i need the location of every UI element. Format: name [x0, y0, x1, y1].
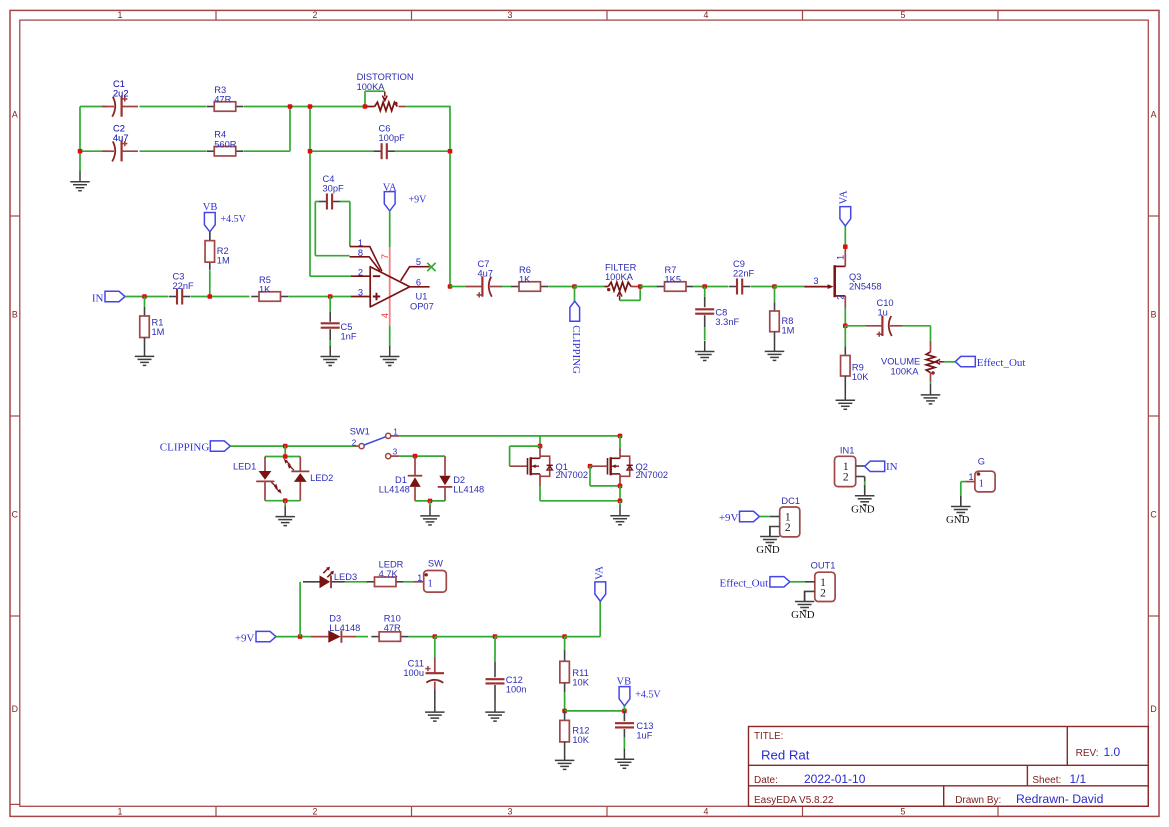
port +9V DC1 — [740, 511, 760, 521]
junction C6 right — [448, 149, 453, 154]
junction VB divider — [562, 709, 567, 714]
junction C8 node — [702, 284, 707, 289]
capacitor C13 1uF — [615, 711, 634, 749]
wire G down — [961, 481, 966, 483]
junction pin3 C5 — [328, 294, 333, 299]
svg-text:VA: VA — [383, 182, 397, 193]
svg-text:3: 3 — [508, 10, 513, 20]
junction D1 top — [413, 454, 418, 459]
port IN — [105, 291, 125, 301]
wire C4 to pin8 — [315, 255, 349, 257]
svg-text:3: 3 — [358, 287, 363, 297]
wire Q2 drain drop — [619, 436, 621, 448]
wire C4 left h — [315, 201, 319, 203]
junction clipping node — [572, 284, 577, 289]
svg-text:100KA: 100KA — [605, 272, 634, 282]
switch SW1 — [355, 433, 400, 458]
wire +9V to DC1 — [760, 516, 770, 518]
wire G gnd stem — [960, 496, 962, 506]
svg-text:2: 2 — [820, 587, 826, 599]
net flag VA op-amp — [384, 192, 395, 211]
svg-text:8: 8 — [358, 248, 363, 258]
ground R1 — [135, 346, 155, 366]
junction led top — [283, 454, 288, 459]
ground diodes — [420, 505, 440, 525]
svg-text:2u2: 2u2 — [113, 89, 129, 99]
wire C8 stem — [704, 287, 706, 297]
wire R1 bottom stub — [144, 338, 146, 347]
junction C12 node — [493, 634, 498, 639]
svg-text:5: 5 — [901, 807, 906, 817]
resistor R1 — [140, 316, 150, 338]
junction R8 node — [772, 284, 777, 289]
resistor R6 — [511, 282, 548, 292]
wire R11 bottom — [564, 683, 566, 692]
wire vertical row1 to pin2 — [309, 107, 311, 277]
wire distortion wiper loop h — [365, 90, 385, 92]
svg-text:C: C — [1150, 510, 1157, 520]
wire to filter — [575, 286, 605, 288]
svg-text:2: 2 — [352, 438, 357, 447]
wire row2 to corner — [244, 150, 290, 152]
capacitor C3 — [169, 289, 190, 305]
ground R12 — [555, 750, 575, 770]
wire rail c12-r11 — [495, 636, 565, 638]
wire R7 to C8 node — [694, 286, 729, 288]
wire C4 left vert — [314, 202, 316, 256]
svg-text:2: 2 — [785, 522, 791, 534]
connector OUT1 pin names — [820, 577, 826, 600]
svg-text:DC1: DC1 — [781, 496, 800, 506]
wire C3 to R2 node — [191, 296, 250, 298]
capacitor C1 — [102, 96, 138, 116]
wire R6 to clipping node — [549, 286, 575, 288]
svg-text:OUT1: OUT1 — [811, 561, 836, 571]
svg-text:IN: IN — [92, 292, 104, 304]
svg-text:C10: C10 — [877, 298, 894, 308]
net flag VB +4.5V — [204, 213, 215, 232]
wire Q1 gate pin — [510, 465, 528, 467]
wire r10 to c11 — [408, 636, 435, 638]
svg-text:1: 1 — [836, 255, 846, 260]
wire R12 bottom — [564, 742, 566, 750]
connector SW pin marks — [417, 573, 432, 590]
svg-text:1M: 1M — [152, 327, 165, 337]
svg-text:4: 4 — [704, 10, 709, 20]
svg-text:R2: R2 — [217, 246, 229, 256]
svg-text:C9: C9 — [733, 259, 745, 269]
connector G — [975, 471, 995, 492]
svg-text:Q3: Q3 — [849, 272, 861, 282]
junction row1 pin2 branch — [308, 104, 313, 109]
svg-text:D: D — [1150, 704, 1156, 714]
op-amp labels U1 OP07 — [410, 292, 434, 312]
wire SW pin stub — [414, 581, 424, 583]
svg-text:D: D — [12, 704, 18, 714]
svg-text:2: 2 — [843, 472, 849, 484]
svg-text:CLIPPING: CLIPPING — [570, 325, 582, 374]
svg-text:1: 1 — [358, 238, 363, 248]
wire out to C7 — [450, 286, 466, 288]
svg-text:2022-01-10: 2022-01-10 — [804, 772, 866, 786]
wire filter loop h — [620, 299, 641, 301]
wire R2 to row — [209, 270, 211, 296]
svg-text:IN1: IN1 — [840, 445, 854, 455]
svg-text:560R: 560R — [214, 139, 237, 149]
wire Q2 source down — [619, 486, 621, 501]
port CLIPPING vertical — [570, 301, 580, 321]
svg-text:1/1: 1/1 — [1070, 772, 1087, 786]
wire row2 mid — [140, 150, 207, 152]
connector IN1 pin names — [843, 461, 849, 484]
wire diode bottom — [415, 500, 445, 502]
resistor R2 — [205, 233, 215, 270]
svg-text:1: 1 — [428, 579, 433, 590]
ground R9 — [836, 390, 856, 410]
wire rail r11-corner — [565, 636, 601, 638]
junction Q2 source — [618, 484, 623, 489]
svg-text:1K5: 1K5 — [665, 275, 682, 285]
svg-text:Effect_Out: Effect_Out — [720, 577, 769, 589]
wire C6 row right — [395, 150, 451, 152]
junction C11 node — [433, 634, 438, 639]
svg-text:47R: 47R — [384, 623, 401, 633]
svg-text:2: 2 — [313, 807, 318, 817]
svg-text:2: 2 — [313, 10, 318, 20]
wire clipping stem — [574, 287, 576, 302]
wire +9V to node — [276, 636, 300, 638]
svg-text:B: B — [1151, 310, 1157, 320]
svg-text:4.7K: 4.7K — [379, 569, 399, 579]
ground input filter — [70, 171, 90, 191]
net flag VB power — [619, 687, 630, 706]
svg-text:TITLE:: TITLE: — [754, 731, 783, 742]
junction C2 ground — [78, 149, 83, 154]
wire Q2 gate tie v — [589, 466, 591, 486]
diode D3 LL4148 — [303, 630, 357, 642]
resistor R5 — [251, 292, 288, 302]
wire R11 stub — [564, 650, 566, 661]
junction R2 bottom — [208, 294, 213, 299]
wire R1 top — [144, 297, 146, 308]
svg-text:Drawn By:: Drawn By: — [955, 795, 1001, 806]
title block text — [754, 731, 1121, 806]
wire IN1 pin2 down — [864, 477, 866, 482]
svg-text:OP07: OP07 — [410, 301, 434, 311]
wire VA to pin7 — [389, 211, 391, 247]
svg-text:R4: R4 — [214, 130, 226, 140]
net flag VA Q3 — [840, 207, 851, 226]
svg-text:100pF: 100pF — [379, 133, 406, 143]
junction Q2 drain — [618, 434, 623, 439]
wire Q1 loop h — [510, 445, 540, 447]
svg-text:R10: R10 — [384, 613, 401, 623]
port Effect_Out OUT1 — [770, 577, 790, 587]
ground DC1 — [760, 526, 780, 546]
transistor Q3 labels — [849, 272, 882, 292]
wire mosfet bottom — [540, 500, 620, 502]
ground C11 — [425, 702, 445, 722]
resistor R3 — [207, 102, 244, 112]
svg-text:4: 4 — [380, 313, 390, 318]
svg-text:5: 5 — [416, 257, 421, 267]
diode D1 LL4148 — [408, 456, 423, 501]
switch SW1 pin numbers — [352, 427, 399, 456]
op-amp pin numbers — [358, 238, 421, 318]
svg-text:CLIPPING: CLIPPING — [160, 442, 210, 454]
svg-text:LEDR: LEDR — [379, 560, 404, 570]
svg-text:VOLUME: VOLUME — [881, 357, 920, 367]
resistor R10 — [371, 632, 408, 642]
svg-text:VA: VA — [839, 190, 850, 204]
junction diode bottom — [428, 499, 433, 504]
svg-text:22nF: 22nF — [173, 281, 195, 291]
port IN connector — [865, 461, 885, 471]
svg-text:1u: 1u — [878, 308, 888, 318]
resistor R7 — [657, 282, 694, 292]
svg-text:1: 1 — [417, 573, 422, 583]
resistor R12 — [560, 720, 570, 742]
wire clipping to sw — [285, 445, 354, 447]
wire C6 row left — [310, 150, 374, 152]
svg-text:REV:: REV: — [1076, 748, 1099, 759]
wire effectout to OUT1 — [790, 581, 805, 583]
junction +9V branch — [298, 634, 303, 639]
port Effect_Out volume — [955, 356, 975, 366]
wire source to C10 — [845, 325, 866, 327]
svg-text:G: G — [978, 457, 985, 467]
svg-text:1K: 1K — [519, 275, 531, 285]
svg-text:IN: IN — [886, 461, 898, 473]
svg-text:SW1: SW1 — [350, 427, 370, 437]
svg-text:47R: 47R — [214, 95, 231, 105]
wire Q1 loop v — [509, 446, 511, 466]
svg-text:100KA: 100KA — [891, 366, 920, 376]
wire Q1 source down — [539, 486, 541, 501]
svg-text:R6: R6 — [519, 265, 531, 275]
wire C4 right vert — [349, 202, 351, 247]
svg-text:2: 2 — [358, 268, 363, 278]
svg-text:1M: 1M — [782, 326, 795, 336]
wire R5 to pin3 — [289, 296, 352, 298]
wire DC1 pin1 — [770, 516, 780, 518]
svg-text:+9V: +9V — [719, 512, 739, 524]
svg-text:3: 3 — [813, 276, 818, 286]
svg-text:3: 3 — [393, 448, 398, 457]
transistor Q3 2N5458 — [804, 249, 845, 308]
wire IN1 pin1 — [856, 465, 865, 467]
svg-text:1: 1 — [968, 472, 973, 482]
svg-text:D1: D1 — [395, 475, 407, 485]
svg-text:10K: 10K — [572, 678, 589, 688]
wire clipping to led — [230, 445, 285, 447]
junction led branch — [283, 444, 288, 449]
wire C7 to R6 — [502, 286, 512, 288]
svg-text:R11: R11 — [572, 668, 588, 678]
wire diode ground stem — [429, 501, 431, 506]
svg-text:10K: 10K — [572, 735, 589, 745]
svg-text:LED3: LED3 — [334, 572, 357, 582]
wire R11 top — [564, 637, 566, 650]
wire volume wiper — [944, 361, 955, 363]
svg-text:B: B — [12, 310, 18, 320]
resistor R4 — [207, 146, 244, 156]
svg-text:U1: U1 — [416, 292, 428, 302]
transistor Q1 2N7002 — [528, 446, 553, 486]
svg-text:1: 1 — [979, 478, 984, 489]
junction Q1 gate loop — [538, 444, 543, 449]
svg-text:Effect_Out: Effect_Out — [977, 357, 1026, 369]
potentiometer VOLUME 100KA — [926, 341, 944, 382]
wire row1 to feedback — [405, 106, 451, 108]
wire distortion wiper loop v — [364, 91, 366, 106]
svg-text:4u7: 4u7 — [478, 269, 494, 279]
svg-text:R12: R12 — [572, 725, 589, 735]
wire led bottom — [265, 500, 300, 502]
diode D2 LL4148 — [438, 456, 453, 501]
capacitor C12 100n — [486, 637, 505, 702]
svg-text:C5: C5 — [341, 322, 353, 332]
svg-text:30pF: 30pF — [323, 184, 345, 194]
svg-text:D3: D3 — [329, 613, 341, 623]
wire volume top — [930, 326, 932, 341]
junction VB C13 — [622, 709, 627, 714]
wire led3 to ledr — [345, 581, 369, 583]
wire vertical R4 to row1 — [289, 107, 291, 152]
svg-text:EasyEDA V5.8.22: EasyEDA V5.8.22 — [754, 795, 834, 806]
junction filter right — [638, 284, 643, 289]
svg-text:10K: 10K — [852, 372, 869, 382]
svg-text:1M: 1M — [217, 256, 230, 266]
svg-text:GND: GND — [851, 504, 875, 516]
svg-text:Sheet:: Sheet: — [1032, 775, 1061, 786]
capacitor C5 — [321, 312, 340, 347]
wire Q1 drain drop — [539, 436, 541, 446]
wire row1 left-stub — [80, 106, 108, 108]
wire R9 bottom stub — [844, 376, 846, 390]
capacitor C8 — [695, 297, 714, 341]
ground U1 pin4 — [380, 346, 400, 366]
wire VB stem — [623, 706, 625, 711]
wire C10 to corner — [902, 325, 931, 327]
svg-text:Date:: Date: — [754, 775, 778, 786]
junction R11 node — [562, 634, 567, 639]
svg-text:C1: C1 — [113, 79, 125, 89]
LED LED1 — [256, 457, 282, 501]
wire IN1 gnd stem — [864, 487, 866, 496]
svg-text:DISTORTION: DISTORTION — [357, 72, 414, 82]
wire C9 to R8 node — [751, 286, 775, 288]
svg-text:LL4148: LL4148 — [453, 485, 484, 495]
svg-text:+4.5V: +4.5V — [221, 214, 247, 225]
wire row1 seg2 — [244, 106, 366, 108]
ground VOLUME — [921, 384, 941, 404]
svg-text:100u: 100u — [403, 668, 424, 678]
wire pin2 row — [310, 275, 351, 277]
svg-text:GND: GND — [946, 514, 970, 526]
wire led stem — [284, 446, 286, 456]
junction mosfet ground — [618, 499, 623, 504]
wire filter loop v — [639, 287, 641, 301]
capacitor C2 — [102, 141, 138, 161]
svg-text:4: 4 — [704, 807, 709, 817]
ground MOSFETs — [610, 505, 630, 525]
transistor Q3 pin numbers — [813, 255, 845, 300]
wire filter to R7 — [640, 286, 657, 288]
svg-text:R3: R3 — [214, 85, 226, 95]
svg-text:C6: C6 — [379, 124, 391, 134]
svg-text:6: 6 — [416, 277, 421, 287]
svg-text:3: 3 — [508, 807, 513, 817]
wire IN1 gnd green — [864, 481, 866, 487]
svg-text:LED2: LED2 — [310, 473, 333, 483]
connector OUT1 — [815, 572, 835, 601]
svg-text:D2: D2 — [453, 475, 465, 485]
wire R1 stub gray — [144, 307, 146, 316]
wire OUT1 pin1 — [805, 581, 815, 583]
wire R9 stub — [844, 347, 846, 356]
LED LED3 — [303, 567, 345, 589]
svg-text:C4: C4 — [323, 174, 335, 184]
wire sw1 pin1 to mosfets — [399, 435, 620, 437]
ground G — [951, 496, 971, 516]
wire ledr to sw — [404, 581, 414, 583]
svg-text:A: A — [1151, 110, 1157, 120]
title block — [749, 727, 1149, 807]
ground C13 — [615, 749, 635, 769]
wire Q3 source down — [844, 308, 846, 326]
capacitor C10 — [866, 316, 902, 337]
capacitor C9 — [729, 279, 750, 295]
svg-text:2N7002: 2N7002 — [636, 470, 669, 480]
wire IN to node — [125, 296, 169, 298]
connector SW — [424, 571, 447, 593]
svg-text:22nF: 22nF — [733, 269, 755, 279]
junction led bottom — [283, 498, 288, 503]
wire volume bottom — [930, 382, 932, 385]
svg-text:1.0: 1.0 — [1104, 745, 1121, 759]
connector G pin marks — [968, 472, 983, 490]
port +9V main — [256, 631, 276, 641]
wire to Q3 gate — [775, 286, 805, 288]
svg-text:C13: C13 — [636, 721, 653, 731]
svg-text:GND: GND — [756, 544, 780, 556]
svg-text:C3: C3 — [173, 272, 185, 282]
junction IN node — [142, 294, 147, 299]
svg-text:C11: C11 — [408, 659, 424, 669]
potentiometer DISTORTION 100KA — [367, 92, 405, 111]
connector DC1 pin names — [785, 512, 791, 535]
transistor Q2 2N7002 — [608, 447, 633, 486]
wire mosfet ground stem — [619, 501, 621, 506]
svg-text:2N7002: 2N7002 — [556, 470, 589, 480]
no-connect X pin5 — [427, 263, 435, 271]
wire C5 stem — [329, 297, 331, 313]
wire rail c11-c12 — [435, 636, 495, 638]
svg-text:LL4148: LL4148 — [329, 623, 360, 633]
resistor LEDR 4.7K — [367, 577, 404, 587]
svg-text:C2: C2 — [113, 124, 125, 134]
wire Q2 gate tie h — [590, 485, 620, 487]
wire row2 left — [80, 150, 107, 152]
svg-text:1: 1 — [393, 427, 398, 436]
svg-text:VA: VA — [594, 566, 605, 580]
resistor R11 — [560, 661, 570, 683]
port CLIPPING left — [210, 441, 230, 451]
wire Q3 drain to VA — [844, 226, 846, 245]
svg-text:R1: R1 — [152, 318, 164, 328]
svg-text:3.3nF: 3.3nF — [715, 317, 739, 327]
